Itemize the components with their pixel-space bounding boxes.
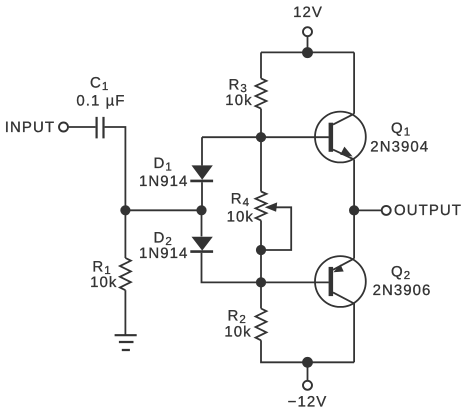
wire output node to output terminal — [354, 209, 382, 211]
wire input node to R1 — [124, 210, 126, 258]
svg-text:1N914: 1N914 — [139, 245, 188, 262]
svg-text:10k: 10k — [90, 274, 117, 291]
junction dot +12V rail — [302, 47, 313, 58]
svg-text:10k: 10k — [224, 323, 251, 340]
svg-text:10k: 10k — [227, 209, 254, 226]
svg-text:D1: D1 — [154, 155, 172, 174]
wire R4 wiper loop — [262, 207, 292, 250]
junction dot -12V rail — [302, 357, 313, 368]
svg-text:12V: 12V — [293, 4, 323, 21]
svg-text:1N914: 1N914 — [139, 173, 188, 190]
diode D2 — [190, 237, 213, 252]
ground — [115, 335, 137, 350]
svg-text:C1: C1 — [90, 75, 108, 94]
wire +12V terminal stub — [307, 37, 309, 53]
transistor Q2 — [315, 256, 366, 307]
wire node C to Q2 base — [261, 281, 328, 283]
wire R2 to bottom rail — [261, 340, 354, 362]
input terminal — [59, 123, 68, 132]
svg-text:2N3904: 2N3904 — [370, 138, 429, 155]
resistor R2 — [256, 309, 267, 341]
svg-text:2N3906: 2N3906 — [373, 282, 432, 299]
svg-text:Q2: Q2 — [391, 263, 410, 282]
wire R4 bottom to node B — [260, 220, 262, 250]
wire D2 cathode corner to node C — [202, 253, 262, 283]
transistor Q1 — [315, 112, 366, 163]
wire -12V terminal stub — [307, 362, 309, 380]
potentiometer R4 — [256, 192, 267, 221]
node B junction dot — [256, 245, 266, 255]
svg-text:R4: R4 — [231, 190, 250, 209]
wire Q1 emitter vertical to output node — [353, 160, 355, 211]
wire node A horizontal to Q1 base and D1 corner — [202, 136, 329, 138]
wire input terminal to capacitor — [69, 126, 96, 128]
wire node row horizontal — [125, 209, 201, 211]
svg-text:0.1 µF: 0.1 µF — [76, 92, 125, 109]
wire input capacitor to input node — [105, 127, 126, 210]
svg-text:−12V: −12V — [288, 394, 328, 411]
wire rail left drop to R3 — [260, 52, 262, 78]
wire Q2 collector vertical to bottom rail — [353, 304, 355, 363]
node A junction dot — [256, 132, 266, 142]
wire node B to node C — [260, 250, 262, 282]
wire node A to R4 top — [260, 137, 262, 191]
wire node C to R2 top — [260, 282, 262, 308]
junction dot input node — [120, 205, 130, 215]
svg-text:10k: 10k — [225, 92, 252, 109]
wire top +12V rail — [261, 51, 354, 53]
power terminal +12V — [303, 27, 312, 36]
junction dot diode node — [196, 205, 206, 215]
node C junction dot — [256, 277, 266, 287]
junction dot output node — [349, 205, 359, 215]
wire D1 anode drop — [201, 137, 203, 165]
wire D1 cathode to node row — [201, 182, 203, 210]
wire Q1 collector vertical — [353, 52, 355, 113]
wiper arrow R4 — [265, 202, 277, 211]
resistor R1 — [120, 258, 131, 290]
capacitor C1 — [97, 117, 104, 138]
wire Q2 emitter vertical from output node — [353, 210, 355, 258]
output terminal — [382, 206, 391, 215]
power terminal -12V — [303, 381, 312, 390]
resistor R3 — [256, 78, 267, 108]
diode D1 — [190, 165, 213, 181]
wire R3 bottom to node A — [260, 109, 262, 138]
svg-text:OUTPUT: OUTPUT — [394, 202, 462, 219]
wire node row to D2 anode — [201, 210, 203, 236]
wire R1 to ground — [124, 290, 126, 335]
svg-text:Q1: Q1 — [391, 120, 410, 139]
svg-text:INPUT: INPUT — [5, 119, 55, 136]
